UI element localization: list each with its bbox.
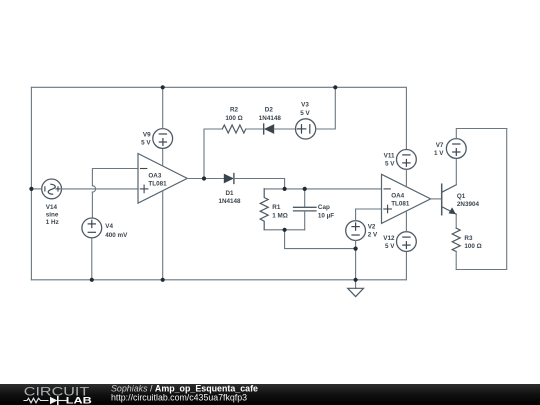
voltage source V12 <box>383 232 416 252</box>
svg-text:TL081: TL081 <box>148 181 167 188</box>
svg-text:V7: V7 <box>436 142 444 149</box>
resistor R2 100 Ohm <box>222 107 246 133</box>
svg-text:OA4: OA4 <box>391 193 404 200</box>
diode D1 1N4148 <box>218 174 241 206</box>
svg-text:V9: V9 <box>143 132 151 139</box>
junction: V14 tap on left rail <box>29 187 33 191</box>
svg-text:5 V: 5 V <box>300 110 310 117</box>
CircuitLab logo: CIRCUIT <box>24 384 90 398</box>
wire: V7 top lead and top-right rail <box>456 129 506 139</box>
svg-text:R3: R3 <box>464 235 473 242</box>
wire: V12 top lead to OA4 V- <box>405 211 407 232</box>
wire: V2 top to OA4 + input <box>356 209 382 221</box>
svg-text:Cap: Cap <box>318 204 330 211</box>
wire: OA3 output <box>187 178 224 180</box>
svg-text:100 Ω: 100 Ω <box>464 243 481 250</box>
svg-text:V4: V4 <box>105 223 113 230</box>
wire: bottom rail <box>31 251 406 279</box>
svg-text:5 V: 5 V <box>385 161 395 168</box>
wire: V2 bottom to ground rail <box>355 241 357 280</box>
svg-text:Q1: Q1 <box>457 193 466 200</box>
op-amp OA3 TL081 <box>138 154 187 204</box>
junction: OA3 output node <box>202 176 206 180</box>
wire: bottom branch to V2 bottom node <box>285 230 356 249</box>
footer url <box>111 392 247 402</box>
wire: V11 bottom lead to OA4 V+ <box>405 169 407 187</box>
svg-text:V14: V14 <box>46 204 58 211</box>
wire: D1 to node over R1 <box>234 179 285 189</box>
svg-text:R1: R1 <box>272 204 281 211</box>
svg-text:OA3: OA3 <box>148 173 161 180</box>
wire: V9 top lead to top rail <box>162 87 164 128</box>
junction: R1/Cap bottom branch <box>283 228 287 232</box>
voltage source V4 <box>82 218 128 239</box>
svg-text:1N4148: 1N4148 <box>259 115 282 122</box>
wire: V14 to OA3 + input <box>62 188 139 190</box>
svg-text:http://circuitlab.com/c435ua7f: http://circuitlab.com/c435ua7fkqfp3 <box>111 392 247 402</box>
junction: ground tap on bottom rail <box>354 278 358 282</box>
svg-text:V11: V11 <box>384 153 395 160</box>
wire: OA3 V+ pin stub <box>162 148 164 166</box>
op-amp OA4 TL081 <box>382 174 431 223</box>
wire: riser from output node to R2 <box>204 129 222 179</box>
svg-text:5 V: 5 V <box>141 140 151 147</box>
CircuitLab logo: resistor squiggle + diode <box>24 397 66 404</box>
junction: V9 tap on top rail <box>161 85 165 89</box>
voltage source V11 <box>384 150 417 170</box>
voltage source V3 <box>296 102 316 139</box>
wire: OA3 V- pin to bottom rail <box>162 191 164 280</box>
footer bar <box>0 384 540 405</box>
junction: V4 tap on bottom rail <box>90 278 94 282</box>
svg-text:V3: V3 <box>301 102 309 109</box>
wire: left rail <box>30 87 32 279</box>
svg-text:sine: sine <box>46 211 59 218</box>
svg-text:5 V: 5 V <box>385 243 395 250</box>
wire: Q1 emitter to R3 <box>455 214 457 228</box>
voltage source V9 <box>141 129 172 149</box>
wire: right side rail <box>456 129 507 270</box>
wire: R1/Cap bottom rail <box>264 229 305 231</box>
svg-text:R2: R2 <box>230 107 239 114</box>
wire: OA4 output to Q1 base <box>431 198 442 200</box>
svg-text:1 Hz: 1 Hz <box>46 219 59 226</box>
junction: D1 branch on middle rail <box>283 187 287 191</box>
svg-text:D2: D2 <box>265 107 274 114</box>
junction: cap top on middle rail <box>303 187 307 191</box>
wire: OA3 - input to V4 (with hop over + wire) <box>92 169 138 219</box>
voltage source V7 <box>434 139 466 159</box>
svg-text:100 Ω: 100 Ω <box>225 115 242 122</box>
footer title: author / project <box>111 383 258 393</box>
wire: V3 to top rail branch <box>316 87 335 129</box>
svg-text:1 V: 1 V <box>434 150 444 157</box>
svg-text:D1: D1 <box>225 190 234 197</box>
junction: V3 branch on top rail <box>333 85 337 89</box>
svg-text:V12: V12 <box>383 235 395 242</box>
wire: top rail <box>31 87 406 149</box>
svg-text:LAB: LAB <box>66 395 92 405</box>
svg-text:400 mV: 400 mV <box>105 232 128 239</box>
transistor Q1 2N3904 <box>442 184 480 215</box>
svg-text:TL081: TL081 <box>391 201 410 208</box>
wire: Q1 collector to V7 <box>455 158 457 184</box>
diode D2 1N4148 <box>246 107 296 134</box>
wire: V4 bottom lead to bottom rail <box>91 238 93 280</box>
svg-text:2N3904: 2N3904 <box>457 201 480 208</box>
ground <box>348 280 364 297</box>
svg-text:1N4148: 1N4148 <box>218 198 241 205</box>
junction: V2 bottom node <box>354 247 358 251</box>
resistor R3 100 Ohm <box>452 228 482 269</box>
svg-text:2 V: 2 V <box>368 231 378 238</box>
svg-text:1 MΩ: 1 MΩ <box>272 212 288 219</box>
wire: V14 left lead to rail <box>31 188 41 190</box>
CircuitLab logo: LAB <box>66 395 92 405</box>
voltage source V14 <box>42 179 62 226</box>
svg-text:10 µF: 10 µF <box>318 212 334 219</box>
voltage source V2 <box>346 221 378 241</box>
svg-text:V2: V2 <box>368 223 376 230</box>
wire: middle rail to OA4 - input <box>264 188 381 190</box>
capacitor Cap 10 uF <box>294 189 335 230</box>
junction: OA3 V- tap on bottom rail <box>161 278 165 282</box>
resistor R1 1 MOhm <box>260 189 288 230</box>
